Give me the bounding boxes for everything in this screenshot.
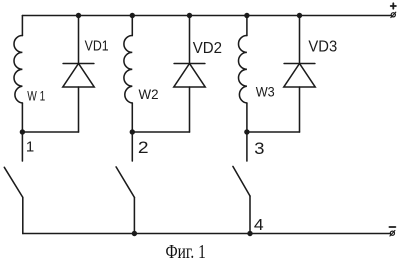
switch S3 blade (open) — [233, 166, 250, 196]
node B top junction of VD2 — [187, 13, 192, 18]
svg-text:2: 2 — [138, 138, 149, 157]
svg-text:3: 3 — [254, 139, 264, 158]
svg-text:VD1: VD1 — [85, 38, 109, 55]
wire switch 2 to bottom bus — [133, 197, 135, 233]
node 3 junction dot — [244, 129, 249, 134]
wire bottom return bus — [23, 233, 391, 235]
wire VD2 branch vertical — [189, 16, 191, 64]
node W2 top junction — [130, 13, 135, 18]
svg-text:VD3: VD3 — [308, 39, 337, 56]
wire W3 branch vertical (top bus to coil) — [246, 16, 248, 36]
wire switch 1 fixed contact stub — [21, 132, 23, 161]
node A top junction of VD1 — [76, 13, 81, 18]
wire switch 2 fixed contact stub — [131, 132, 133, 161]
node junction switch 2 on bottom bus — [132, 231, 137, 236]
inductor W1 — [14, 36, 22, 104]
wire VD3 branch vertical — [299, 16, 301, 64]
wire branch 1 bottom (node 1 to VD1) — [22, 131, 78, 133]
terminal - (negative supply) — [389, 226, 395, 228]
svg-text:Фиг. 1: Фиг. 1 — [166, 241, 206, 263]
node W3 top junction — [244, 13, 249, 18]
wire branch 2 bottom (node 2 to VD2) — [132, 131, 189, 133]
switch S2 blade (open) — [116, 167, 134, 198]
svg-text:VD2: VD2 — [193, 40, 222, 57]
inductor W2 — [124, 36, 132, 104]
node 4 junction dot on bottom bus — [247, 231, 252, 236]
node 1 junction dot — [20, 129, 25, 134]
diode VD3 — [284, 64, 315, 88]
svg-text:1: 1 — [26, 139, 34, 156]
diode VD2 — [174, 64, 205, 88]
svg-text:W3: W3 — [256, 84, 275, 100]
wire W2 branch vertical (top bus to coil) — [131, 16, 133, 36]
wire W3 coil to node 3 — [246, 103, 248, 132]
wire W1 coil to node 1 — [21, 103, 23, 132]
switch S1 blade (open) — [4, 167, 23, 197]
svg-text:W 1: W 1 — [27, 87, 45, 103]
wire branch 3 bottom (node 3 to VD3) — [247, 131, 300, 133]
wire W2 coil to node 2 — [131, 103, 133, 132]
wire switch 3 to bottom bus — [249, 196, 251, 234]
node C top junction of VD3 — [297, 13, 302, 18]
node 2 junction dot — [130, 129, 135, 134]
wire switch 1 to bottom bus — [22, 197, 24, 233]
inductor W3 — [239, 36, 247, 104]
svg-text:4: 4 — [254, 216, 264, 234]
wire switch 3 fixed contact stub — [246, 132, 248, 161]
svg-text:W2: W2 — [139, 86, 159, 102]
wire W1 branch vertical (top bus to coil) — [21, 16, 23, 36]
wire VD1 branch vertical — [78, 16, 80, 64]
diode VD1 — [63, 64, 94, 88]
wire top supply bus — [22, 15, 391, 17]
terminal + (positive supply) — [391, 3, 396, 8]
